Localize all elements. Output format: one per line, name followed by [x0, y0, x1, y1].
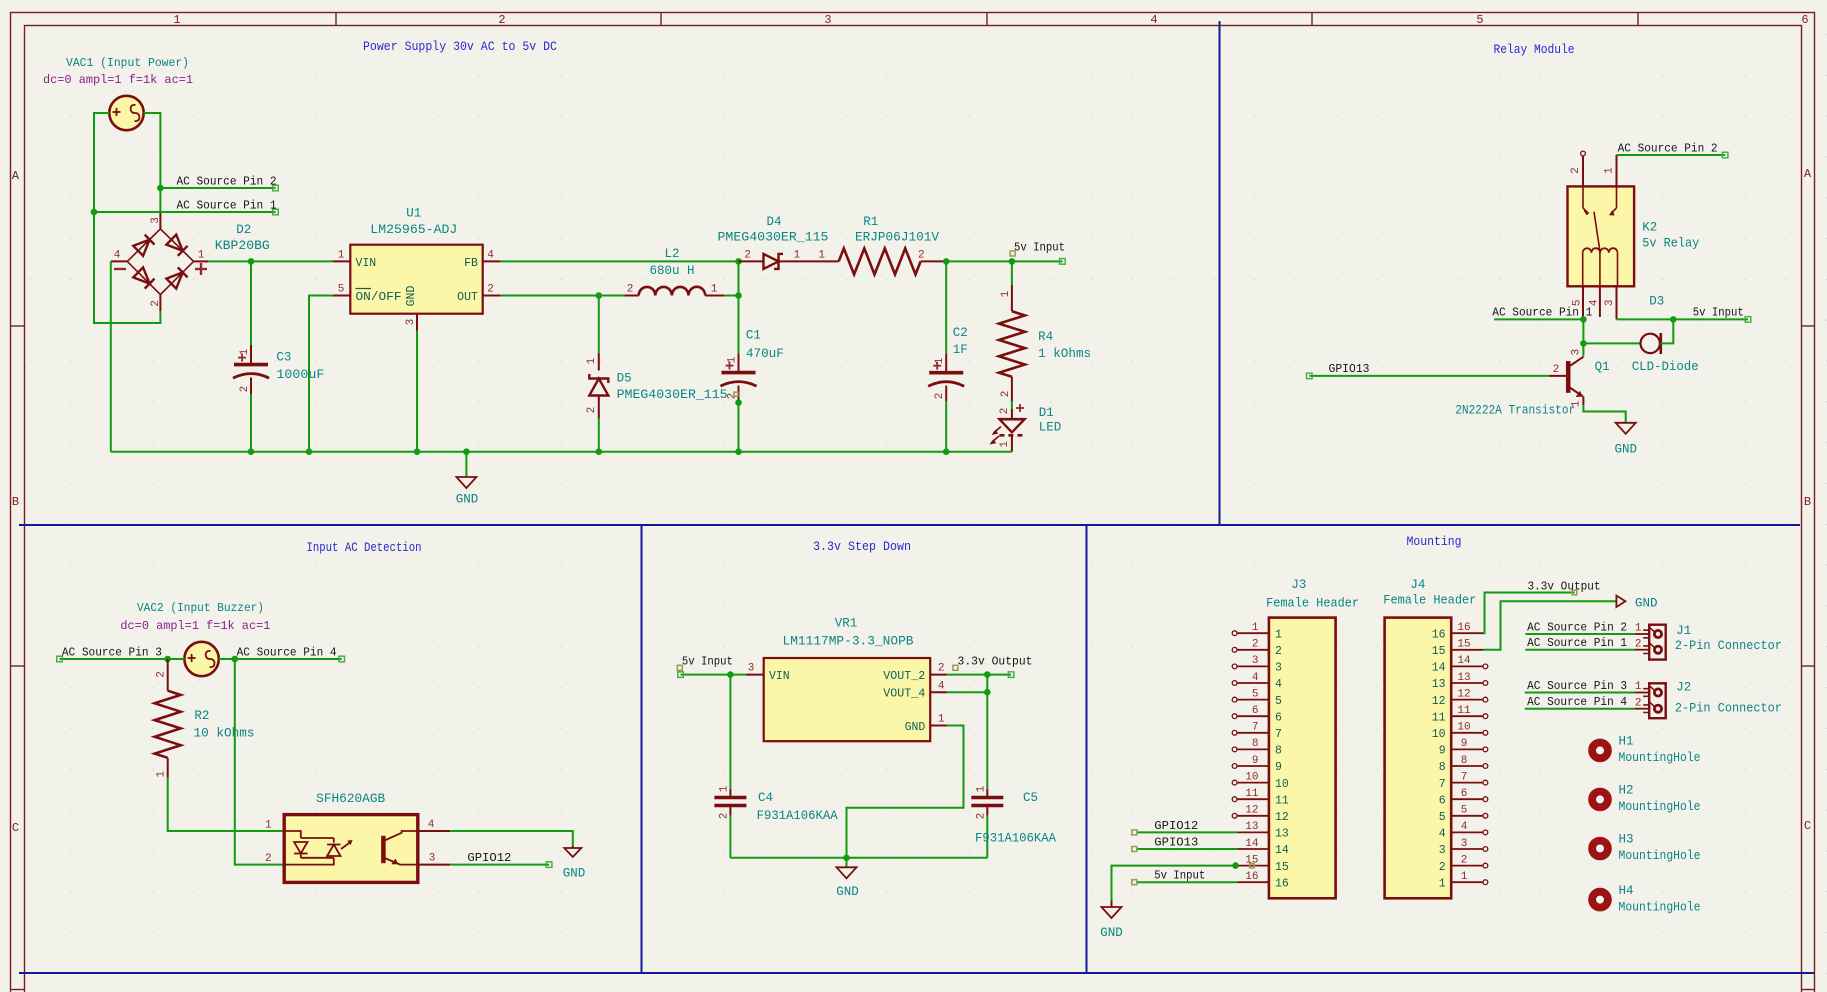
wire J4 pin16 to 3.3v output: [1483, 593, 1575, 634]
svg-text:15: 15: [1457, 639, 1470, 651]
wire AC Source Pin 3 to J2: [1525, 692, 1635, 694]
svg-text:2N2222A Transistor: 2N2222A Transistor: [1455, 404, 1575, 418]
junction at AC Source Pin 1 tap: [91, 209, 98, 216]
wire label AC Source Pin 1: [94, 211, 276, 213]
svg-text:4: 4: [487, 250, 494, 262]
svg-text:10: 10: [1457, 722, 1470, 734]
bridge pin 3 stub: [159, 213, 161, 229]
svg-text:VAC1 (Input Power): VAC1 (Input Power): [66, 56, 189, 70]
gnd symbol relay: [1616, 423, 1636, 434]
svg-text:4: 4: [1150, 13, 1157, 27]
end square 3.3v mounting: [1572, 590, 1577, 595]
wire end square AC Source Pin 1: [273, 209, 279, 215]
svg-text:8: 8: [1461, 755, 1468, 767]
svg-text:J2: J2: [1676, 681, 1691, 695]
VR1 pin3 line: [746, 674, 764, 676]
svg-text:MountingHole: MountingHole: [1619, 751, 1701, 765]
svg-text:AC Source Pin 1: AC Source Pin 1: [177, 198, 277, 212]
svg-text:VOUT_2: VOUT_2: [883, 670, 925, 683]
svg-text:U1: U1: [406, 207, 421, 221]
end square GPIO12 j3: [1132, 830, 1137, 835]
wire end square AC2 relay: [1722, 152, 1728, 158]
svg-text:12: 12: [1245, 805, 1258, 817]
svg-text:J1: J1: [1676, 624, 1691, 638]
bridge diode bottom-right: [166, 272, 182, 288]
relay K2 pin4 line: [1599, 286, 1601, 317]
svg-text:3.3v Step Down: 3.3v Step Down: [813, 540, 911, 554]
svg-text:GPIO13: GPIO13: [1154, 836, 1198, 850]
svg-text:6: 6: [1461, 788, 1468, 800]
svg-text:1: 1: [975, 785, 987, 792]
connector J4 body: [1385, 618, 1452, 899]
svg-text:11: 11: [1432, 711, 1446, 724]
svg-text:Power Supply 30v AC to 5v DC: Power Supply 30v AC to 5v DC: [363, 40, 557, 54]
relay K2 pin5 line: [1582, 286, 1584, 317]
relay K2 contacts: [1583, 186, 1617, 251]
svg-text:C1: C1: [746, 328, 761, 342]
svg-text:2: 2: [918, 249, 925, 261]
wire VAC2 to opto pin2: [235, 659, 284, 865]
capacitor C3 polarized body: [234, 363, 268, 367]
svg-text:Relay Module: Relay Module: [1494, 43, 1575, 57]
label anchor square 3.3v vr1: [953, 665, 958, 670]
inductor L2 pin1 stub: [705, 295, 724, 297]
svg-text:1: 1: [1635, 623, 1642, 635]
svg-text:13: 13: [1245, 821, 1258, 833]
junction J3 pin15: [1232, 862, 1239, 869]
svg-text:1: 1: [239, 348, 251, 355]
svg-text:L2: L2: [664, 247, 679, 261]
svg-text:4: 4: [1275, 678, 1282, 691]
regulator U1 body: [350, 245, 482, 314]
wire end square AC Source Pin 2: [273, 185, 279, 191]
U1 pin ON/OFF overline: [356, 288, 372, 290]
relay K2 coil: [1583, 248, 1618, 253]
svg-text:2: 2: [1439, 861, 1446, 874]
svg-text:3.3v Output: 3.3v Output: [1528, 579, 1601, 593]
svg-text:15: 15: [1275, 861, 1289, 874]
svg-text:4: 4: [938, 680, 945, 692]
relay K2 body: [1568, 186, 1635, 286]
wire end square GPIO12: [546, 862, 552, 868]
svg-text:14: 14: [1457, 655, 1471, 667]
svg-text:2: 2: [265, 853, 272, 865]
bridge diode top-right: [166, 235, 182, 251]
svg-text:K2: K2: [1642, 221, 1657, 235]
svg-text:D2: D2: [236, 223, 251, 237]
connector J3 body: [1269, 618, 1336, 899]
svg-text:1: 1: [793, 249, 800, 261]
wire AC Source Pin 1 to J1: [1525, 649, 1635, 651]
bridge pin 1 stub: [194, 260, 209, 262]
svg-text:Q1: Q1: [1595, 360, 1610, 374]
svg-text:GPIO12: GPIO12: [467, 851, 511, 865]
wire C3 top: [250, 261, 252, 345]
svg-text:12: 12: [1275, 811, 1289, 824]
svg-text:2: 2: [1461, 854, 1468, 866]
gnd stem mounting: [1111, 901, 1113, 908]
svg-text:11: 11: [1457, 705, 1471, 717]
svg-text:2: 2: [487, 284, 494, 296]
svg-text:J3: J3: [1291, 578, 1306, 592]
svg-text:C: C: [12, 821, 19, 835]
svg-text:2: 2: [239, 386, 251, 393]
connector J1 body: [1635, 625, 1666, 660]
wire U1 OUT to L2: [501, 295, 625, 297]
U1 pin2 line: [483, 295, 501, 297]
junction U1 gnd at rail: [414, 448, 421, 455]
connector J2 body: [1635, 683, 1666, 718]
gnd stem 3.3v: [846, 858, 848, 868]
diode D5 pin1 line: [598, 353, 600, 370]
junction gnd tap: [463, 448, 470, 455]
svg-text:5: 5: [1275, 695, 1282, 708]
LED D1 plus sign: [1016, 404, 1024, 412]
svg-text:10: 10: [1275, 778, 1289, 791]
wire collector node vertical: [1582, 319, 1584, 356]
svg-text:1: 1: [1439, 877, 1446, 890]
gnd symbol opto: [564, 848, 581, 857]
VR1 pin4 line: [930, 691, 947, 693]
capacitor C4 pin1 line: [729, 789, 731, 798]
svg-text:2: 2: [156, 671, 168, 678]
svg-text:6: 6: [1801, 13, 1808, 27]
svg-text:16: 16: [1275, 877, 1289, 890]
capacitor C3 pin1 line: [250, 345, 252, 365]
svg-text:1: 1: [1635, 681, 1642, 693]
capacitor C5 pin1 line: [986, 789, 988, 798]
svg-text:2: 2: [586, 407, 598, 414]
LED D1 pin1 line: [1011, 435, 1013, 451]
svg-text:F931A106KAA: F931A106KAA: [975, 832, 1056, 846]
optocoupler internals: [284, 831, 418, 865]
junction bridge output: [248, 258, 255, 265]
gnd stem opto: [572, 846, 574, 848]
voltage source VAC1: [109, 96, 143, 130]
bridge diode bottom-left: [133, 267, 149, 283]
svg-text:GND: GND: [905, 721, 926, 734]
wire end square AC3: [57, 656, 63, 662]
bridge minus sign: [114, 268, 126, 270]
wire GPIO12 to J3 pin13: [1136, 831, 1237, 833]
wire D5 top: [598, 296, 600, 354]
svg-text:1: 1: [156, 771, 168, 778]
svg-text:AC Source Pin 4: AC Source Pin 4: [1527, 695, 1627, 709]
svg-text:2: 2: [999, 408, 1011, 415]
svg-text:GPIO12: GPIO12: [1154, 819, 1198, 833]
svg-text:VOUT_4: VOUT_4: [883, 688, 925, 701]
svg-text:1: 1: [265, 819, 272, 831]
svg-text:16: 16: [1457, 622, 1470, 634]
svg-text:Female Header: Female Header: [1266, 597, 1359, 611]
resistor R1 body: [839, 248, 921, 274]
svg-text:13: 13: [1432, 678, 1446, 691]
junction opto pin2 tap: [232, 656, 239, 663]
svg-text:C5: C5: [1023, 791, 1038, 805]
junction below C1: [735, 399, 742, 406]
wire C4 vertical: [729, 675, 731, 789]
svg-text:D4: D4: [766, 215, 781, 229]
svg-text:AC Source Pin 1: AC Source Pin 1: [1527, 636, 1627, 650]
svg-text:SFH620AGB: SFH620AGB: [316, 792, 386, 806]
wire end square 3.3v out: [1008, 672, 1014, 678]
svg-text:8: 8: [1252, 738, 1259, 750]
svg-text:MountingHole: MountingHole: [1619, 900, 1701, 914]
svg-text:AC Source Pin 2: AC Source Pin 2: [177, 174, 277, 188]
bridge diode top-left: [133, 240, 149, 256]
svg-text:VR1: VR1: [835, 616, 858, 630]
svg-text:13: 13: [1457, 672, 1470, 684]
svg-text:2: 2: [744, 249, 751, 261]
svg-text:AC Source Pin 2: AC Source Pin 2: [1527, 620, 1627, 634]
svg-text:2: 2: [1635, 639, 1642, 651]
wire VAC1 right to bridge pin3: [144, 113, 161, 213]
bridge pin 4 stub: [111, 260, 128, 262]
svg-text:2: 2: [934, 393, 946, 400]
svg-text:1: 1: [711, 284, 718, 296]
svg-text:3: 3: [405, 319, 417, 326]
svg-text:1F: 1F: [953, 343, 968, 357]
svg-text:6: 6: [1252, 705, 1259, 717]
mounting hole H4: [1592, 892, 1608, 908]
junction C2 top: [943, 258, 950, 265]
wire end square AC4: [339, 656, 345, 662]
wire opto pin4 to gnd: [450, 831, 573, 846]
transistor Q1 body bar: [1566, 361, 1571, 393]
LED D1 body: [990, 419, 1024, 444]
svg-text:5: 5: [1476, 13, 1483, 27]
wire AC Source Pin 3: [60, 658, 185, 660]
svg-text:GND: GND: [1100, 926, 1123, 940]
pin-end square C1 pin2: [734, 392, 738, 396]
junction C3 at rail: [248, 448, 255, 455]
svg-text:H3: H3: [1619, 833, 1634, 847]
svg-text:1: 1: [1000, 290, 1012, 297]
svg-text:KBP20BG: KBP20BG: [215, 239, 270, 253]
svg-text:4: 4: [1439, 828, 1446, 841]
svg-text:5v Input: 5v Input: [1014, 241, 1065, 255]
svg-text:LM1117MP-3.3_NOPB: LM1117MP-3.3_NOPB: [783, 635, 915, 649]
svg-text:AC Source Pin 2: AC Source Pin 2: [1618, 141, 1718, 155]
svg-text:D1: D1: [1039, 406, 1054, 420]
svg-text:10: 10: [1432, 728, 1446, 741]
junction vout node: [984, 671, 991, 678]
junction collector node: [1580, 340, 1587, 347]
svg-text:2: 2: [1275, 645, 1282, 658]
svg-text:12: 12: [1432, 695, 1446, 708]
svg-text:2: 2: [1570, 167, 1582, 174]
diode D4 pin2 line: [739, 260, 765, 262]
svg-text:14: 14: [1432, 662, 1446, 675]
diode D5 pin2 line: [598, 395, 600, 418]
svg-text:15: 15: [1245, 854, 1258, 866]
svg-text:11: 11: [1245, 788, 1259, 800]
svg-text:13: 13: [1275, 828, 1289, 841]
svg-text:R4: R4: [1038, 330, 1053, 344]
svg-text:1: 1: [198, 249, 205, 261]
svg-text:1: 1: [338, 250, 345, 262]
svg-text:470uF: 470uF: [746, 347, 784, 361]
junction OUT at D5: [596, 292, 603, 299]
junction C2 at rail: [943, 448, 950, 455]
svg-text:3.3v Output: 3.3v Output: [958, 654, 1033, 668]
wire C4 bottom: [729, 816, 731, 858]
svg-text:CLD-Diode: CLD-Diode: [1632, 360, 1699, 374]
voltage label AC Source Pin 2 wire (relay): [1617, 154, 1726, 156]
diode D3 CLD body: [1641, 333, 1661, 354]
diode D4 body: [764, 254, 779, 269]
capacitor C1 pin2 line: [738, 386, 740, 403]
svg-text:VIN: VIN: [356, 257, 377, 270]
svg-text:F931A106KAA: F931A106KAA: [757, 809, 838, 823]
bridge rectifier D2 diamond: [127, 229, 193, 295]
svg-text:H2: H2: [1619, 784, 1634, 798]
svg-text:Female Header: Female Header: [1383, 594, 1476, 608]
svg-text:1 kOhms: 1 kOhms: [1038, 347, 1091, 361]
svg-text:D3: D3: [1649, 295, 1664, 309]
capacitor C2 pin1 line: [945, 354, 947, 373]
svg-text:9: 9: [1252, 755, 1259, 767]
svg-text:2: 2: [718, 813, 730, 820]
resistor R2 body: [155, 691, 181, 758]
wire D3 right: [1661, 319, 1674, 343]
svg-text:4: 4: [1252, 672, 1259, 684]
junction D3 node: [1670, 316, 1677, 323]
svg-text:3: 3: [1604, 299, 1616, 306]
svg-text:GND: GND: [456, 493, 479, 507]
svg-text:7: 7: [1275, 728, 1282, 741]
svg-text:1000uF: 1000uF: [276, 368, 324, 382]
wire end square GPIO13: [1307, 373, 1313, 379]
svg-text:D5: D5: [617, 372, 632, 386]
gnd symbol mounting: [1102, 907, 1122, 918]
svg-text:AC Source Pin 3: AC Source Pin 3: [62, 645, 162, 659]
label anchor square 5v Input: [1010, 251, 1015, 256]
wire C3 bottom: [250, 394, 252, 452]
wire 5v Input (relay): [1617, 318, 1749, 320]
wire VOUT_2 to output: [947, 674, 1011, 676]
wire VAC1 left to bridge pin2: [94, 113, 160, 323]
transistor Q1 emitter: [1568, 387, 1583, 397]
svg-text:VAC2 (Input Buzzer): VAC2 (Input Buzzer): [137, 601, 264, 615]
capacitor C2 pin2 line: [945, 386, 947, 402]
junction C1 at rail: [735, 448, 742, 455]
wire AC Source Pin 4: [219, 658, 342, 660]
transistor Q1 emitter pin: [1582, 397, 1584, 406]
transistor Q1 collector: [1568, 357, 1583, 367]
svg-text:5v Input: 5v Input: [682, 654, 733, 668]
svg-text:H4: H4: [1619, 884, 1634, 898]
svg-text:9: 9: [1275, 761, 1282, 774]
svg-text:3: 3: [1461, 838, 1468, 850]
wire J4 pin15 to gnd arrow: [1483, 601, 1616, 650]
svg-text:14: 14: [1245, 838, 1259, 850]
junction R2 tap: [164, 656, 171, 663]
svg-text:FB: FB: [464, 257, 478, 270]
svg-text:1: 1: [1461, 871, 1468, 883]
svg-text:3: 3: [1275, 662, 1282, 675]
svg-text:2: 2: [1553, 364, 1560, 376]
wire C1 node vertical: [738, 261, 740, 353]
wire C1 bottom: [738, 403, 740, 452]
capacitor C5 pin2 line: [986, 806, 988, 816]
svg-text:16: 16: [1245, 871, 1258, 883]
svg-text:16: 16: [1432, 628, 1446, 641]
svg-text:Mounting: Mounting: [1407, 535, 1462, 549]
svg-text:1: 1: [1604, 167, 1616, 174]
capacitor C1 pin1 line: [738, 353, 740, 373]
wire R2 to opto pin1: [168, 778, 285, 831]
relay K2 pin2 line: [1582, 156, 1584, 186]
wire L2 to C1 node: [724, 295, 738, 297]
wire C5 vertical: [986, 692, 988, 789]
relay K2 pin2 open circle: [1581, 151, 1586, 156]
wire C2 top: [945, 261, 947, 353]
svg-text:6: 6: [1439, 794, 1446, 807]
inductor L2 pin2 stub: [624, 295, 638, 297]
wire R4 to D1: [1011, 401, 1013, 409]
svg-text:dc=0 ampl=1 f=1k ac=1: dc=0 ampl=1 f=1k ac=1: [43, 73, 193, 87]
svg-text:2: 2: [1000, 391, 1012, 398]
junction at AC Source Pin 2 tap: [157, 185, 164, 192]
diode D5 body: [589, 379, 608, 396]
svg-text:2-Pin Connector: 2-Pin Connector: [1675, 639, 1782, 653]
svg-text:2: 2: [1635, 697, 1642, 709]
wire end square 5v relay: [1745, 317, 1751, 323]
gnd symbol triangle: [456, 477, 476, 488]
svg-text:GND: GND: [1614, 443, 1637, 457]
svg-text:Input AC Detection: Input AC Detection: [307, 541, 422, 555]
wire 5v Input to J3 pin16: [1136, 881, 1237, 883]
svg-text:7: 7: [1461, 771, 1468, 783]
svg-text:GND: GND: [405, 286, 418, 307]
junction relay pin5 node: [1580, 316, 1587, 323]
mounting hole H2: [1592, 792, 1608, 808]
resistor R2 pin1 line: [167, 758, 169, 778]
svg-text:10 kOhms: 10 kOhms: [194, 726, 255, 740]
svg-text:R1: R1: [863, 215, 878, 229]
svg-text:5: 5: [1252, 688, 1259, 700]
diode D4 pin1 line: [779, 260, 839, 262]
svg-text:2: 2: [498, 13, 505, 27]
wire 3.3v gnd rail: [730, 857, 987, 859]
resistor R1 pin2 line: [921, 260, 947, 262]
capacitor C3 pin2 line: [250, 378, 252, 395]
connector J3 pins: [1237, 632, 1269, 634]
U1 pin1 line: [333, 260, 351, 262]
svg-text:680u H: 680u H: [650, 264, 695, 278]
gnd symbol stem: [465, 452, 467, 477]
svg-text:1: 1: [1275, 628, 1282, 641]
svg-text:ERJP06J101V: ERJP06J101V: [855, 231, 940, 245]
wire Q1 emitter to gnd: [1583, 405, 1625, 423]
relay K2 coil leads: [1583, 252, 1618, 287]
junction R4 top: [1009, 258, 1016, 265]
wire J3 pin15 to gnd: [1112, 866, 1238, 901]
LED D1 pin2 line: [1011, 409, 1013, 419]
wire GPIO12: [450, 864, 549, 866]
optocoupler U2 body: [284, 815, 418, 883]
svg-text:7: 7: [1252, 722, 1259, 734]
svg-text:9: 9: [1461, 738, 1468, 750]
svg-text:B: B: [12, 495, 19, 509]
wire VOUT_4 link: [947, 675, 987, 693]
capacitor C1 polarized body: [722, 371, 756, 375]
svg-text:1: 1: [999, 441, 1011, 448]
wire U1 ON/OFF to gnd rail: [309, 296, 333, 452]
svg-text:1: 1: [173, 13, 180, 27]
wire bridge pin1 to U1 VIN: [208, 260, 332, 262]
